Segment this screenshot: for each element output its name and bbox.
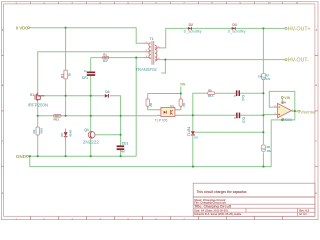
junction (65.6,156.2): [65, 155, 67, 157]
frame ticks left right: [1, 55, 318, 166]
hierarchical label HV-OUT+: [285, 26, 311, 32]
svg-text:VIN: VIN: [180, 83, 186, 87]
net flag Vsense: [298, 109, 316, 114]
wire vin label stub: [180, 87, 182, 94]
svg-text:47k: 47k: [266, 77, 271, 81]
wire bottom rail: [30, 111, 295, 167]
svg-text:R2: R2: [182, 103, 186, 107]
svg-text:2N2222: 2N2222: [83, 140, 100, 145]
mosfet S1 IRFP250N: [28, 92, 48, 107]
svg-text:D_Schottky: D_Schottky: [184, 30, 202, 34]
frame ticks top: [31, 2, 283, 4]
hierarchical label HV-OUT-: [285, 58, 309, 64]
svg-text:TLP765: TLP765: [155, 119, 168, 123]
svg-text:Id: 1/1: Id: 1/1: [299, 212, 307, 216]
wire R3 column top: [65, 28, 67, 70]
junction (29.8,156.2): [29, 155, 31, 157]
junction (37.7,156.2): [37, 155, 39, 157]
diode D5: [60, 129, 73, 142]
hierarchical label GND: [16, 154, 28, 159]
wire CF1 column: [90, 58, 92, 72]
junction (263.4,93.2): [262, 92, 264, 94]
svg-text:1n: 1n: [84, 69, 87, 73]
svg-text:3: 3: [275, 113, 276, 115]
svg-text:HV-OUT-: HV-OUT-: [288, 58, 309, 64]
diode D3 schottky: [228, 23, 246, 34]
svg-text:D_Schottky: D_Schottky: [228, 30, 246, 34]
svg-text:R3: R3: [60, 74, 64, 79]
svg-text:R4: R4: [32, 129, 36, 133]
junction (90.7,115.8): [90, 115, 92, 117]
svg-text:R05: R05: [40, 128, 44, 134]
opto resistor R2a: [146, 96, 153, 107]
svg-text:Vsense: Vsense: [300, 109, 316, 114]
svg-text:R5: R5: [208, 88, 212, 92]
wire base: [97, 134, 121, 136]
resistor R8: [262, 145, 272, 153]
resistor R4: [32, 127, 44, 135]
svg-text:D5: D5: [60, 133, 64, 137]
svg-text:This circuit charges the capac: This circuit charges the capacitor.: [197, 190, 248, 194]
svg-text:R5.1: R5.1: [208, 94, 214, 98]
junction (180.8,93.5): [180, 92, 182, 94]
svg-text:Cc2: Cc2: [241, 117, 245, 123]
junction (263.4,115.3): [262, 114, 264, 116]
svg-text:9 VDC: 9 VDC: [16, 25, 28, 30]
wire D4 column to base: [120, 116, 122, 146]
junction (282.3,119.9): [281, 119, 283, 121]
svg-text:Title: Charging Circuit: Title: Charging Circuit: [194, 205, 232, 209]
svg-text:2: 2: [275, 106, 276, 108]
resistor R1 (horizontal): [103, 53, 109, 63]
wire noninv: [263, 114, 274, 116]
junction (165.4,59.6): [164, 59, 166, 61]
wire aux vertical: [135, 58, 137, 157]
svg-text:D3: D3: [232, 23, 236, 27]
svg-text:R8: R8: [267, 145, 271, 149]
capacitor CF1: [82, 69, 95, 80]
svg-text:4n7: 4n7: [121, 150, 126, 154]
junction (90.7,95.8): [90, 95, 92, 97]
svg-text:D2: D2: [189, 23, 193, 27]
wire opto LED top: [148, 93, 181, 95]
svg-text:HV-OUT+: HV-OUT+: [288, 26, 311, 32]
svg-text:Rev: 6.2: Rev: 6.2: [299, 208, 310, 212]
svg-text:1k: 1k: [68, 73, 72, 77]
svg-text:IRFP250N: IRFP250N: [28, 103, 48, 108]
wire secondary top: [159, 28, 285, 48]
svg-text:TL431: TL431: [187, 127, 191, 137]
junction (263.4,132.2): [262, 131, 264, 133]
svg-text:R1: R1: [103, 53, 107, 57]
svg-text:10k: 10k: [267, 149, 272, 153]
svg-text:U2: U2: [194, 136, 198, 140]
title block note box: [193, 183, 315, 197]
wire 9VDC rail: [30, 28, 143, 44]
title block text: [194, 198, 310, 216]
wire D4 to corner: [110, 96, 121, 116]
junction (65.6,95.8): [65, 95, 67, 97]
wire xfmr pin3 rail: [91, 57, 143, 59]
wire Q1 emitter to GND: [90, 139, 92, 157]
junction (37.7,115.8): [37, 115, 39, 117]
wire feedback loop: [269, 91, 295, 111]
wire R8 to bottom rail: [262, 152, 264, 166]
junction (120.6,156.2): [120, 155, 122, 157]
junction (65.6,115.8): [65, 115, 67, 117]
transformer T1 TRANSF02: [135, 37, 160, 72]
svg-text:4148: 4148: [69, 130, 73, 137]
svg-text:4k7: 4k7: [103, 59, 108, 63]
resistor R6: [54, 114, 62, 121]
transistor Q1 2N2222: [83, 128, 100, 145]
svg-text:T1: T1: [150, 37, 154, 41]
svg-text:C: C: [234, 116, 236, 120]
svg-text:U1: U1: [170, 104, 174, 108]
svg-text:GND: GND: [16, 154, 27, 159]
wire HV column mid: [262, 80, 264, 145]
opto resistor R2b: [179, 96, 186, 107]
wire source to GND: [37, 101, 39, 127]
svg-text:D4: D4: [105, 90, 109, 94]
wire opto out rail: [179, 114, 236, 116]
wire HV column top: [262, 28, 264, 73]
svg-text:CF1: CF1: [82, 76, 88, 80]
svg-text:R7: R7: [266, 73, 270, 77]
capacitor C1: [117, 142, 129, 154]
svg-text:Size: A4 | Date: 2011-05-30: Size: A4 | Date: 2011-05-30 |: [194, 208, 228, 212]
diode D4: [105, 90, 110, 97]
svg-text:Cb1: Cb1: [122, 142, 129, 146]
svg-text:LM358: LM358: [281, 118, 292, 122]
capacitor Cc1: [234, 90, 245, 101]
wire opto column down: [192, 115, 194, 130]
resistor R7: [258, 73, 271, 81]
junction (120.6,115.8): [120, 115, 122, 117]
svg-text:KiCad E.D.A. kicad (2011-05-2: KiCad E.D.A. kicad (2011-05-25)-stable: [194, 212, 242, 216]
svg-text:1W: 1W: [258, 75, 262, 78]
wire vin stub: [281, 98, 283, 104]
diode D2 schottky: [184, 23, 202, 34]
capacitor Cc2: [234, 113, 245, 123]
wire D5 to GND: [65, 141, 67, 156]
hierarchical label 9VDC: [16, 25, 30, 30]
wire mid rail: [38, 115, 157, 117]
title block box: [193, 197, 315, 216]
junction (90.7,156.2): [90, 155, 92, 157]
svg-text:R2: R2: [149, 103, 153, 107]
wire drain rail: [38, 52, 143, 93]
junction (263.4,28.4): [262, 27, 264, 29]
svg-text:1: 1: [292, 110, 293, 112]
wire output to flag: [294, 110, 298, 112]
junction (263.5,166.6): [262, 166, 264, 168]
svg-text:Q1: Q1: [84, 128, 89, 132]
frame ticks bottom: [31, 216, 283, 219]
junction (193,166.6): [192, 166, 194, 168]
svg-text:VIN: VIN: [284, 96, 290, 100]
wire secondary bottom: [159, 59, 285, 61]
wire GND rail: [29, 155, 137, 157]
junction (294.8,111.1): [294, 110, 296, 112]
junction (65.6,27.7): [65, 27, 67, 29]
resistor R5: [208, 88, 215, 98]
wire comp branch: [193, 93, 208, 115]
junction (120.6,134.8): [120, 134, 122, 136]
TL431 U2: [187, 127, 198, 140]
svg-text:Cc1: Cc1: [241, 95, 245, 101]
net flag VIN at opamp: [281, 96, 290, 100]
wire C1 to GND: [120, 150, 122, 157]
resistor R3: [60, 70, 71, 79]
svg-text:TRANSF02: TRANSF02: [135, 67, 157, 72]
optocoupler U1 TLP765: [155, 104, 179, 122]
svg-text:R01: R01: [54, 118, 60, 122]
wire R3 to gate rail: [65, 79, 67, 116]
junction (136.2,57.6): [135, 57, 137, 59]
wire gate rail: [41, 95, 105, 97]
wire TL431 tap: [195, 131, 263, 133]
svg-text:S1: S1: [30, 93, 34, 97]
op-amp U3 LM358: [274, 101, 294, 123]
svg-text:C: C: [234, 94, 236, 98]
wire stub below secondary: [161, 60, 165, 73]
svg-text:U3A: U3A: [281, 101, 287, 105]
junction (192.8,115.3): [192, 114, 194, 116]
